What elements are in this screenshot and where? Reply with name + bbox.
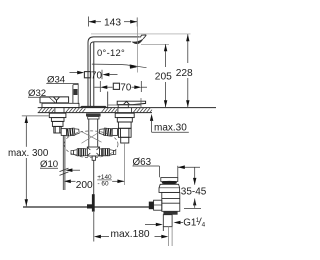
svg-text:205: 205	[155, 72, 172, 83]
svg-text:228: 228	[176, 68, 193, 79]
svg-text:4: 4	[202, 222, 206, 229]
extension line outlet to 205	[141, 43, 169, 45]
drain tailpipe G1 1/4	[163, 215, 172, 231]
rod clamp joint	[87, 194, 95, 211]
svg-text:max.180: max.180	[111, 229, 150, 240]
center hose fitting left	[71, 148, 87, 156]
extension from right valve down (200 dim)	[123, 143, 125, 185]
left valve joint block	[61, 129, 66, 136]
right escutcheon	[108, 92, 141, 108]
svg-text:max.30: max.30	[154, 123, 187, 134]
drain rod port and clamp	[149, 202, 154, 210]
spout shank below deck	[86, 113, 101, 146]
right valve below deck	[115, 113, 134, 143]
drain body	[162, 192, 180, 211]
label square70 #2 (right escutcheon)	[94, 81, 147, 92]
label square70 #1 (spout base)	[70, 70, 118, 79]
shank tailpiece and pop-up rod	[92, 156, 95, 160]
extension line from tip down (outlet axis)	[136, 18, 138, 73]
right valve hose fitting (to left)	[99, 127, 112, 136]
dimension 200 +140/-60	[64, 180, 125, 184]
left valve hose fitting (to right)	[66, 127, 79, 136]
drain pop-up plug cap	[161, 178, 178, 182]
deck / countertop	[38, 108, 216, 113]
valve shanks through deck	[55, 108, 132, 114]
right handle lever	[117, 101, 145, 104]
spout base plate (dark wedge)	[79, 106, 108, 108]
deck hatching	[38, 108, 152, 113]
dimension 35-45	[184, 167, 201, 208]
svg-text:max. 300: max. 300	[8, 148, 49, 159]
center tee block	[87, 147, 99, 156]
swivel arc	[92, 64, 147, 68]
svg-text:70: 70	[91, 71, 102, 82]
spout tip (aerator beak)	[139, 35, 146, 39]
dimension max.30 (deck thickness)	[150, 114, 189, 132]
left escutcheon	[42, 103, 79, 107]
svg-text:70: 70	[120, 82, 131, 93]
drain flange	[159, 184, 180, 192]
pop-up rod knob	[73, 85, 78, 104]
extension line spout top to 228	[91, 33, 191, 35]
label G1 1/4	[174, 221, 184, 225]
center hose fitting right	[100, 148, 116, 156]
small arrow at tailpipe left (G thread)	[145, 223, 163, 227]
left handle lever	[40, 97, 69, 103]
right valve joint block	[112, 129, 117, 136]
pull rod Ø10 (from joint, variable length)	[63, 136, 65, 191]
svg-text:- 60: - 60	[98, 181, 109, 188]
spout column	[88, 37, 139, 108]
dimension 143	[89, 17, 138, 27]
horizontal linkage rod	[23, 206, 150, 208]
left valve below deck	[49, 113, 66, 133]
rod break slashes	[60, 168, 69, 175]
dimension 205	[164, 44, 167, 107]
plug seal (dark lens)	[162, 181, 177, 185]
svg-text:0°-12°: 0°-12°	[97, 47, 125, 58]
dimension max.180	[94, 212, 169, 242]
svg-text:143: 143	[104, 17, 121, 28]
crossing hose lines behind shank	[81, 131, 102, 143]
dashed ellipse (hose loop)	[64, 131, 118, 158]
drain bottom flange	[163, 211, 177, 214]
svg-text:G1: G1	[183, 217, 196, 228]
svg-text:200: 200	[76, 180, 93, 191]
dimension max.300	[22, 115, 49, 117]
dimension 228	[186, 34, 189, 107]
svg-text:35-45: 35-45	[181, 187, 207, 198]
